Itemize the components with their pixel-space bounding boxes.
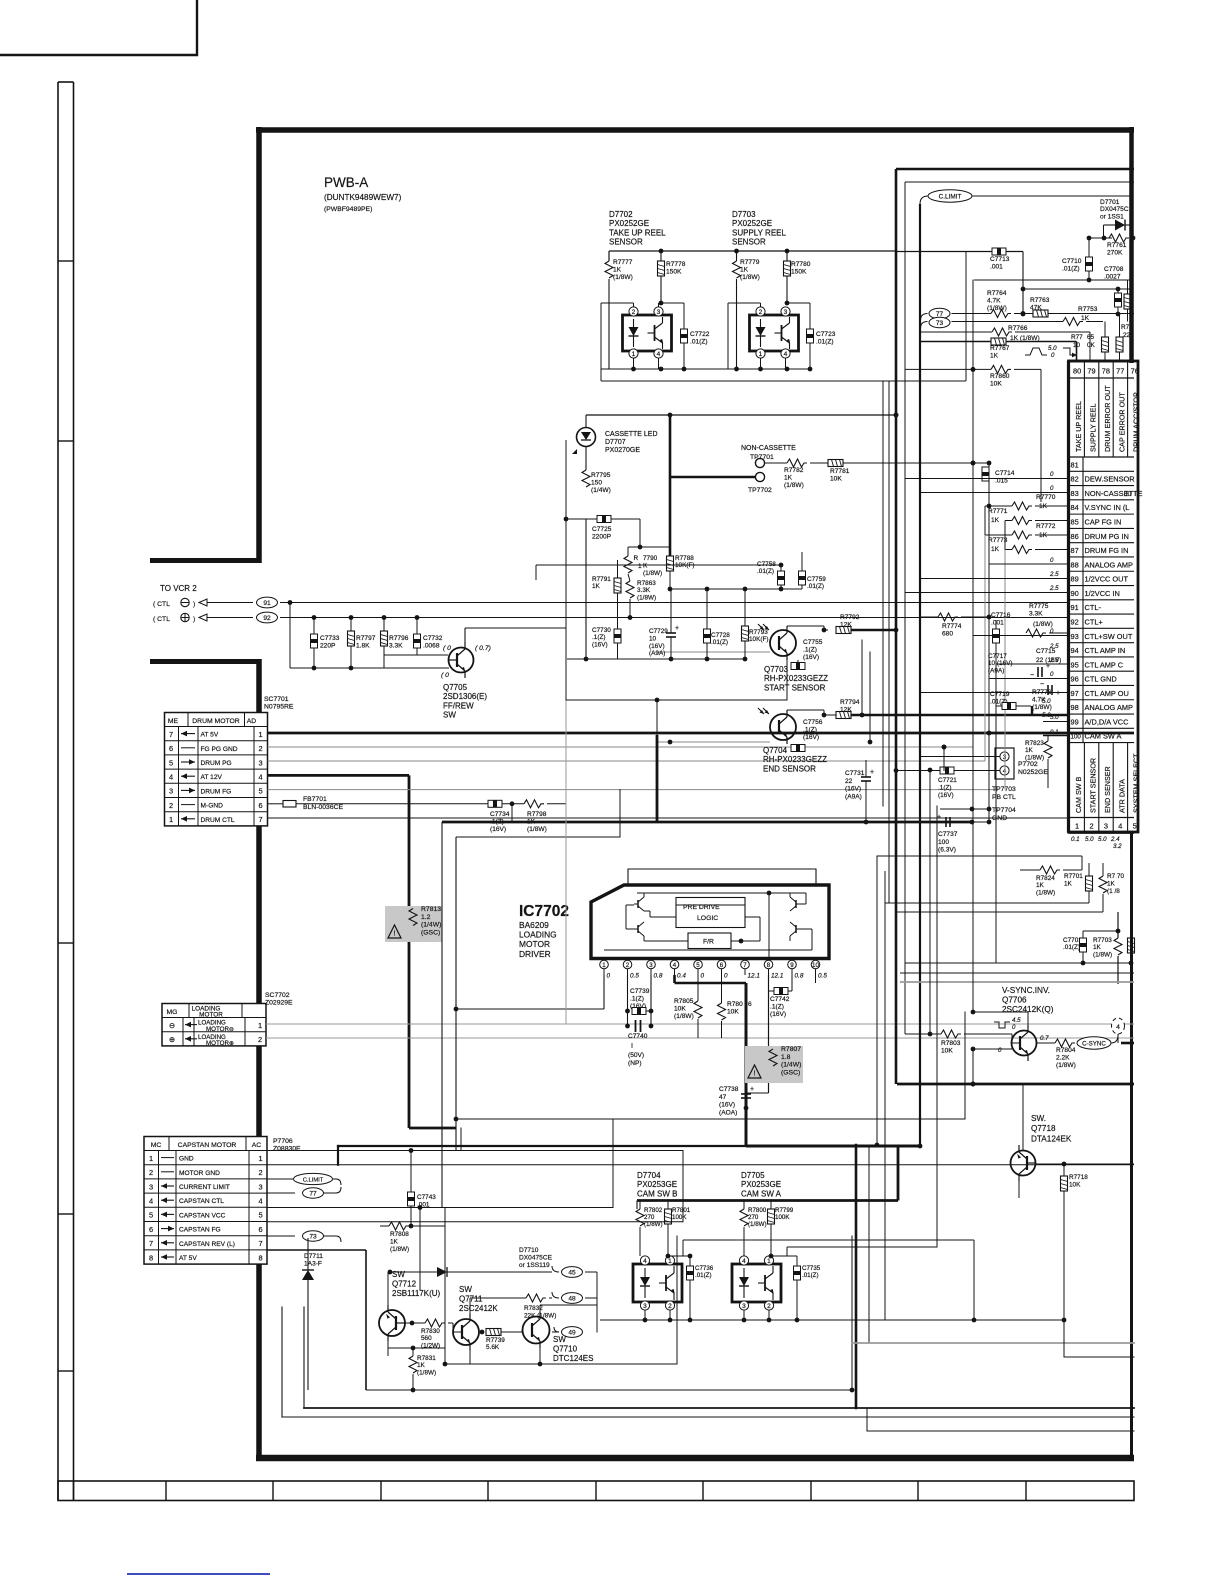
svg-text:C7721: C7721 (938, 777, 957, 784)
svg-text:(16V): (16V) (490, 826, 506, 833)
svg-text:1K: 1K (991, 546, 1000, 553)
svg-text:4: 4 (1116, 1024, 1120, 1031)
wire drum CTL (268, 817, 1069, 819)
wire capstan AT5V (267, 1249, 366, 1251)
IC7702 internal transistor TL (637, 900, 639, 908)
wire Q7706 base (973, 1048, 1012, 1050)
svg-text:R7801: R7801 (672, 1207, 691, 1214)
svg-text:5: 5 (258, 787, 262, 796)
wire pin1 run (456, 1008, 604, 1010)
svg-text:1K: 1K (1107, 880, 1116, 887)
svg-text:4: 4 (258, 773, 262, 782)
svg-text:1: 1 (668, 1258, 672, 1265)
capacitor C7737 (945, 817, 947, 827)
svg-text:R7863: R7863 (637, 580, 656, 587)
svg-text:R7805: R7805 (674, 998, 694, 1005)
svg-text:CAP ERROR OUT: CAP ERROR OUT (1117, 392, 1126, 452)
svg-text:(1/8W): (1/8W) (613, 274, 633, 281)
svg-text:47: 47 (719, 1094, 727, 1101)
svg-text:78: 78 (1102, 367, 1110, 376)
capacitor C7713 (895, 251, 992, 253)
svg-text:C7714: C7714 (995, 470, 1015, 477)
svg-text:86: 86 (1071, 532, 1079, 541)
svg-text:1: 1 (149, 1154, 153, 1163)
svg-text:( CTL: ( CTL (153, 601, 170, 608)
svg-text:82: 82 (1071, 475, 1079, 484)
resistor R7860 (991, 365, 1011, 373)
svg-text:SW: SW (443, 711, 456, 720)
capacitor C7729 (666, 632, 676, 634)
svg-text:88: 88 (1071, 560, 1079, 569)
svg-text:DX0475CE: DX0475CE (519, 1255, 553, 1262)
wire h565 (536, 564, 781, 566)
svg-text:(16V): (16V) (592, 641, 608, 648)
opto sensor D7703 block (750, 315, 799, 351)
svg-text:.01(Z): .01(Z) (757, 568, 774, 575)
wire TP7702 column thick (669, 477, 672, 556)
svg-text:C7716: C7716 (991, 612, 1011, 619)
svg-text:(1/8W): (1/8W) (1032, 704, 1052, 711)
wire TP7702 thick (670, 476, 755, 479)
svg-text:Q7705: Q7705 (443, 683, 468, 692)
svg-text:CAPSTAN VCC: CAPSTAN VCC (179, 1212, 226, 1219)
wire sensor1 pin3 net (661, 302, 684, 304)
svg-text:2: 2 (258, 1035, 262, 1044)
svg-text:5: 5 (149, 1211, 153, 1220)
svg-text:76: 76 (1131, 367, 1139, 376)
capacitor C7734 (488, 800, 502, 807)
capacitor C7736 (689, 1256, 691, 1266)
fusible FB7701 (268, 803, 284, 805)
resistor R7704 (1128, 938, 1135, 953)
wire capstan MOTOR GND (267, 1164, 1134, 1166)
svg-text:.1(Z): .1(Z) (592, 634, 606, 641)
svg-text:(16V): (16V) (845, 786, 861, 793)
IC7702 body (591, 885, 829, 959)
svg-text:5: 5 (258, 1211, 262, 1220)
oval C-SYNC (1077, 1037, 1111, 1049)
svg-text:.01(Z): .01(Z) (711, 639, 728, 646)
svg-text:9: 9 (790, 962, 794, 969)
svg-text:85: 85 (1071, 518, 1079, 527)
svg-text:0: 0 (1050, 471, 1054, 478)
svg-text:C7725: C7725 (592, 526, 612, 533)
svg-text:6: 6 (720, 962, 724, 969)
svg-text:0: 0 (607, 973, 611, 980)
oval 45 (562, 1267, 583, 1278)
svg-text:3: 3 (784, 309, 788, 316)
resistor R7824 (1040, 866, 1060, 874)
svg-text:2: 2 (258, 1168, 262, 1177)
svg-text:.001: .001 (990, 264, 1003, 271)
svg-text:C7723: C7723 (816, 331, 836, 338)
svg-text:150K: 150K (666, 269, 682, 276)
svg-text:CTL+SW OUT: CTL+SW OUT (1085, 632, 1133, 641)
wire h856 (877, 855, 1082, 857)
svg-text:R7808: R7808 (390, 1231, 409, 1238)
transistor Q7712 (PNP) (379, 1310, 405, 1336)
svg-text:C.LIMIT: C.LIMIT (939, 193, 962, 200)
svg-text:N0795RE: N0795RE (264, 704, 294, 711)
svg-text:3.2: 3.2 (1113, 843, 1122, 850)
resistor R7718 (1061, 1176, 1068, 1191)
svg-text:1K: 1K (613, 267, 622, 274)
svg-text:R7796: R7796 (389, 635, 409, 642)
svg-text:2: 2 (767, 1303, 771, 1310)
svg-text:DTA124EK: DTA124EK (1031, 1134, 1072, 1143)
svg-text:100: 100 (1071, 734, 1082, 741)
svg-text:4.7K: 4.7K (987, 297, 1001, 304)
svg-text:ANALOG AMP: ANALOG AMP (1085, 560, 1134, 569)
svg-text:CTL+: CTL+ (1085, 617, 1103, 626)
svg-text:91: 91 (263, 600, 271, 607)
svg-text:0.8: 0.8 (795, 973, 804, 980)
svg-text:.0027: .0027 (1104, 274, 1121, 281)
svg-text:C7742: C7742 (770, 996, 790, 1003)
transistor Q7710 (digital) (523, 1317, 550, 1344)
wire h628 (565, 628, 567, 700)
svg-text:or 1SS119: or 1SS119 (519, 1262, 550, 1269)
resistor R7803 (941, 1030, 961, 1038)
svg-text:5.6K: 5.6K (486, 1344, 500, 1351)
svg-text:!: ! (394, 931, 396, 938)
svg-text:AT 12V: AT 12V (201, 774, 223, 781)
svg-text:5.0: 5.0 (1050, 714, 1059, 721)
svg-text:C7756: C7756 (803, 719, 823, 726)
wire h903 (885, 902, 1089, 904)
svg-text:Q7710: Q7710 (553, 1345, 578, 1354)
svg-text:BLN-0036CE: BLN-0036CE (303, 804, 344, 811)
svg-text:(50V): (50V) (628, 1052, 644, 1059)
IC7702 pre drive logic box (676, 898, 745, 928)
wire end sensor base (657, 741, 770, 743)
svg-text:1: 1 (258, 730, 262, 739)
svg-text:(1/8W): (1/8W) (637, 594, 656, 601)
svg-text:C7738: C7738 (719, 1086, 739, 1093)
wire v445 (444, 1208, 446, 1365)
svg-text:TAKE UP REEL: TAKE UP REEL (1074, 401, 1083, 452)
wire v420 (419, 1208, 421, 1291)
svg-text:C7740: C7740 (628, 1033, 648, 1040)
svg-text:(NP): (NP) (628, 1060, 642, 1067)
wire h973 gray (900, 981, 1134, 983)
svg-text:6: 6 (149, 1225, 153, 1234)
svg-text:P7706: P7706 (273, 1138, 293, 1145)
svg-text:65: 65 (1087, 334, 1095, 341)
svg-text:R7800: R7800 (748, 1207, 767, 1214)
svg-text:96: 96 (1071, 675, 1079, 684)
wire drum AT5V thick rail (268, 732, 1135, 735)
svg-text:0: 0 (998, 1047, 1002, 1054)
svg-text:SC7702: SC7702 (265, 992, 290, 999)
connector CN right-edge table (1069, 361, 1139, 832)
svg-text:4: 4 (149, 1197, 153, 1206)
resistor R7792 (836, 627, 851, 634)
svg-text:MOTOR GND: MOTOR GND (179, 1170, 220, 1177)
capacitor C7743 (410, 1151, 412, 1193)
capacitor C7732 (416, 618, 418, 635)
wire current-limit v920 thick (919, 204, 921, 1146)
svg-text:⊕: ⊕ (169, 1035, 175, 1044)
resistor R7778 (660, 251, 662, 261)
svg-text:6: 6 (169, 744, 173, 753)
wire 91 drop (289, 603, 291, 669)
wire sensor1 left net (601, 302, 634, 304)
svg-text:RH-PX0233GEZZ: RH-PX0233GEZZ (764, 674, 828, 683)
wire Q7712 (387, 1272, 389, 1305)
wire drum AT12V thick (268, 774, 410, 777)
svg-text:(A9A): (A9A) (845, 793, 862, 800)
svg-text:6: 6 (258, 801, 262, 810)
svg-text:D7705: D7705 (741, 1171, 765, 1180)
drum pg/fg riser stubs (984, 506, 986, 535)
svg-text:1K: 1K (592, 583, 601, 590)
resistor R7777 (605, 261, 613, 278)
svg-text:R7793: R7793 (749, 629, 768, 636)
svg-text:C-SYNC: C-SYNC (1082, 1040, 1106, 1047)
wire ctl-92 run (280, 617, 1068, 619)
svg-text:0: 0 (724, 973, 728, 980)
svg-text:( 0: ( 0 (443, 645, 451, 652)
svg-text:10K: 10K (674, 1006, 686, 1013)
svg-text:Q7712: Q7712 (392, 1280, 417, 1289)
svg-text:CAPSTAN CTL: CAPSTAN CTL (179, 1198, 224, 1205)
resistor R7765b body (1116, 337, 1123, 352)
capacitor C7728 (706, 589, 708, 629)
svg-text:CTL-: CTL- (1085, 603, 1102, 612)
IC7702 internal transistor BL (637, 925, 639, 933)
svg-text:270K: 270K (1107, 250, 1123, 257)
svg-text:84: 84 (1071, 503, 1079, 512)
wire capstan FG (267, 1221, 683, 1223)
svg-text:3: 3 (258, 758, 262, 767)
svg-text:LOADING: LOADING (519, 930, 557, 940)
svg-text:(DUNTK9489WEW7): (DUNTK9489WEW7) (324, 193, 402, 202)
svg-text:D7702: D7702 (609, 210, 633, 219)
svg-text:0.8: 0.8 (654, 973, 663, 980)
svg-text:CAPSTAN REV (L): CAPSTAN REV (L) (179, 1241, 235, 1248)
oval C.LIMIT left (267, 1178, 295, 1180)
svg-text:DRUM CTL: DRUM CTL (201, 817, 235, 824)
cam sensor bottom rail (600, 1319, 1064, 1321)
capacitor C7722 (683, 303, 685, 329)
svg-text:7: 7 (258, 815, 262, 824)
svg-text:MG: MG (167, 1009, 178, 1016)
wire drum FG (268, 789, 997, 791)
svg-text:94: 94 (1071, 646, 1079, 655)
svg-text:K: K (643, 562, 648, 569)
svg-text:0.1: 0.1 (1071, 836, 1080, 843)
svg-text:−: − (1030, 672, 1034, 679)
thick climit run h1146 (338, 1145, 920, 1147)
transistor Q7711 (453, 1319, 479, 1345)
svg-text:4: 4 (258, 1197, 262, 1206)
svg-text:R7763: R7763 (1030, 297, 1050, 304)
wire v989 (988, 502, 990, 822)
svg-text:C7734: C7734 (490, 811, 510, 818)
svg-text:95: 95 (1071, 660, 1079, 669)
svg-text:(1/8W): (1/8W) (390, 1246, 409, 1253)
resistor R7761 (1089, 237, 1112, 239)
svg-text:DRUM FG: DRUM FG (201, 788, 232, 795)
svg-text:77: 77 (309, 1190, 317, 1197)
svg-text:AT 5V: AT 5V (201, 732, 219, 739)
resistor R7765a body (1102, 337, 1109, 352)
svg-text:V.SYNC IN (L: V.SYNC IN (L (1085, 503, 1130, 512)
resistor R7774 (938, 613, 958, 621)
oval 49 (562, 1327, 583, 1338)
svg-text:.01(Z): .01(Z) (1063, 944, 1080, 951)
svg-text:R780: R780 (727, 1001, 743, 1008)
connector P7702 box (995, 748, 1014, 779)
svg-text:CAPSTAN MOTOR: CAPSTAN MOTOR (178, 1142, 237, 1149)
svg-text:FF/REW: FF/REW (443, 701, 474, 710)
svg-text:(1/8W): (1/8W) (1036, 889, 1055, 896)
svg-text:CTL GND: CTL GND (1085, 675, 1117, 684)
svg-text:(1/8W): (1/8W) (643, 570, 662, 577)
wire mesh group (282, 280, 1134, 1431)
wire drum PG (268, 760, 986, 762)
svg-text:3: 3 (742, 1303, 746, 1310)
svg-text:): ) (193, 601, 195, 608)
svg-text:10: 10 (649, 635, 657, 642)
svg-text:49: 49 (568, 1329, 576, 1336)
svg-text:MOTOR⊖: MOTOR⊖ (206, 1026, 234, 1033)
svg-text:80: 80 (1073, 367, 1081, 376)
svg-text:2: 2 (149, 1168, 153, 1177)
svg-text:1: 1 (767, 1258, 771, 1265)
oval 73 right (929, 317, 950, 327)
svg-text:R7764: R7764 (987, 290, 1007, 297)
wire to C7714 (843, 462, 989, 464)
resistor R7781 (810, 462, 828, 464)
svg-text:12K: 12K (840, 707, 852, 714)
svg-text:1: 1 (602, 962, 606, 969)
capacitor C7725 (566, 518, 597, 520)
svg-text:1: 1 (169, 815, 173, 824)
IC7702 internal transistor TR (795, 900, 797, 908)
oval 73 left (267, 1235, 295, 1237)
connector P7706 capstan motor table (144, 1137, 267, 1265)
svg-text:(16V): (16V) (649, 643, 665, 650)
svg-text:C7713: C7713 (990, 256, 1010, 263)
svg-text:4: 4 (169, 773, 173, 782)
svg-text:Q7706: Q7706 (1002, 995, 1027, 1004)
svg-text:CTL AMP C: CTL AMP C (1085, 660, 1124, 669)
svg-text:RH-PX0233GEZZ: RH-PX0233GEZZ (763, 755, 827, 764)
svg-text:MOTOR⊕: MOTOR⊕ (206, 1040, 234, 1047)
svg-text:R7701: R7701 (1064, 873, 1083, 880)
svg-text:12.1: 12.1 (771, 973, 784, 980)
transistor Q7705 (449, 648, 474, 673)
capacitor C7718 (1047, 685, 1049, 695)
capacitor C7730 (614, 629, 621, 643)
thick h1084 (897, 1083, 1134, 1086)
svg-text:(1/8W): (1/8W) (417, 1369, 436, 1376)
resistor R7801 (665, 1209, 672, 1224)
svg-text:4: 4 (742, 1258, 746, 1265)
wire h963 (905, 962, 1131, 964)
svg-text:R7703: R7703 (1093, 937, 1112, 944)
wire pin3 drop (650, 975, 652, 1026)
svg-text:CAPSTAN FG: CAPSTAN FG (179, 1227, 221, 1234)
svg-text:!: ! (754, 1071, 756, 1078)
oval C.LIMIT right (928, 190, 972, 202)
connector SC7701 drum motor table (165, 713, 268, 826)
cam sensor mid wires (668, 1255, 690, 1257)
transistor Q7703 start sensor (758, 624, 764, 630)
resistor R7807 highlight (745, 1046, 803, 1083)
svg-text:+: + (870, 769, 874, 776)
svg-text:D7710: D7710 (519, 1247, 539, 1254)
wire 512 drop (511, 804, 513, 822)
wire drum FG PG GND (268, 746, 974, 748)
svg-text:560: 560 (421, 1335, 432, 1342)
svg-text:SENSOR: SENSOR (732, 238, 766, 247)
svg-text:C7729: C7729 (649, 628, 668, 635)
svg-text:R7813: R7813 (421, 906, 441, 913)
svg-text:12.1: 12.1 (748, 973, 761, 980)
resistor R7795 (582, 470, 590, 487)
resistor R7796 (383, 618, 385, 632)
svg-text:R7830: R7830 (421, 1328, 440, 1335)
svg-text:93: 93 (1071, 632, 1079, 641)
capacitor C7721 (896, 770, 940, 772)
svg-text:FB7701: FB7701 (303, 796, 327, 803)
svg-text:3.3K: 3.3K (389, 643, 403, 650)
svg-text:1: 1 (1075, 822, 1079, 831)
svg-text:2.5: 2.5 (1049, 657, 1059, 664)
oval 48 (562, 1293, 583, 1304)
resistor R7739 (486, 1329, 501, 1336)
opto sensor D7705 block (732, 1264, 781, 1302)
wire ctl-91 run (280, 602, 1068, 604)
resistor R7798 (524, 800, 544, 808)
svg-text:SYSTEM SELECT: SYSTEM SELECT (1132, 753, 1141, 813)
svg-text:.01(Z): .01(Z) (816, 339, 834, 346)
capacitor C7731 (861, 776, 871, 778)
svg-text:.0068: .0068 (423, 643, 440, 650)
svg-text:R7797: R7797 (356, 635, 376, 642)
svg-text:or 1SS1: or 1SS1 (1100, 213, 1124, 220)
svg-text:R7761: R7761 (1107, 242, 1127, 249)
wires from cam sensors to right (683, 1239, 974, 1241)
svg-text:R7807: R7807 (781, 1046, 801, 1053)
svg-text:MOTOR: MOTOR (519, 939, 550, 949)
svg-text:D7707: D7707 (605, 439, 626, 446)
svg-text:0.5: 0.5 (630, 973, 639, 980)
svg-text:CASSETTE LED: CASSETTE LED (605, 431, 658, 438)
svg-text:R7782: R7782 (784, 467, 804, 474)
svg-text:(16V): (16V) (803, 654, 819, 661)
svg-text:C7717: C7717 (988, 653, 1007, 660)
resistor R7808 (380, 1225, 389, 1227)
svg-text:1K: 1K (990, 353, 999, 360)
wire h975 (900, 972, 1134, 974)
svg-text:V-SYNC.INV.: V-SYNC.INV. (1002, 986, 1050, 995)
svg-text:CAM SW A: CAM SW A (741, 1189, 782, 1198)
wire cassette top (586, 414, 896, 416)
resistor R7773 (1012, 546, 1032, 554)
svg-text:0.5: 0.5 (818, 973, 827, 980)
svg-text:97: 97 (1071, 689, 1079, 698)
svg-text:R7 70: R7 70 (1107, 873, 1124, 880)
transistor Q7706 (1012, 1031, 1037, 1056)
wire v442 (441, 822, 443, 1208)
svg-text:0: 0 (1051, 352, 1055, 359)
svg-text:R7794: R7794 (840, 699, 860, 706)
svg-text:(GSC): (GSC) (781, 1069, 800, 1076)
